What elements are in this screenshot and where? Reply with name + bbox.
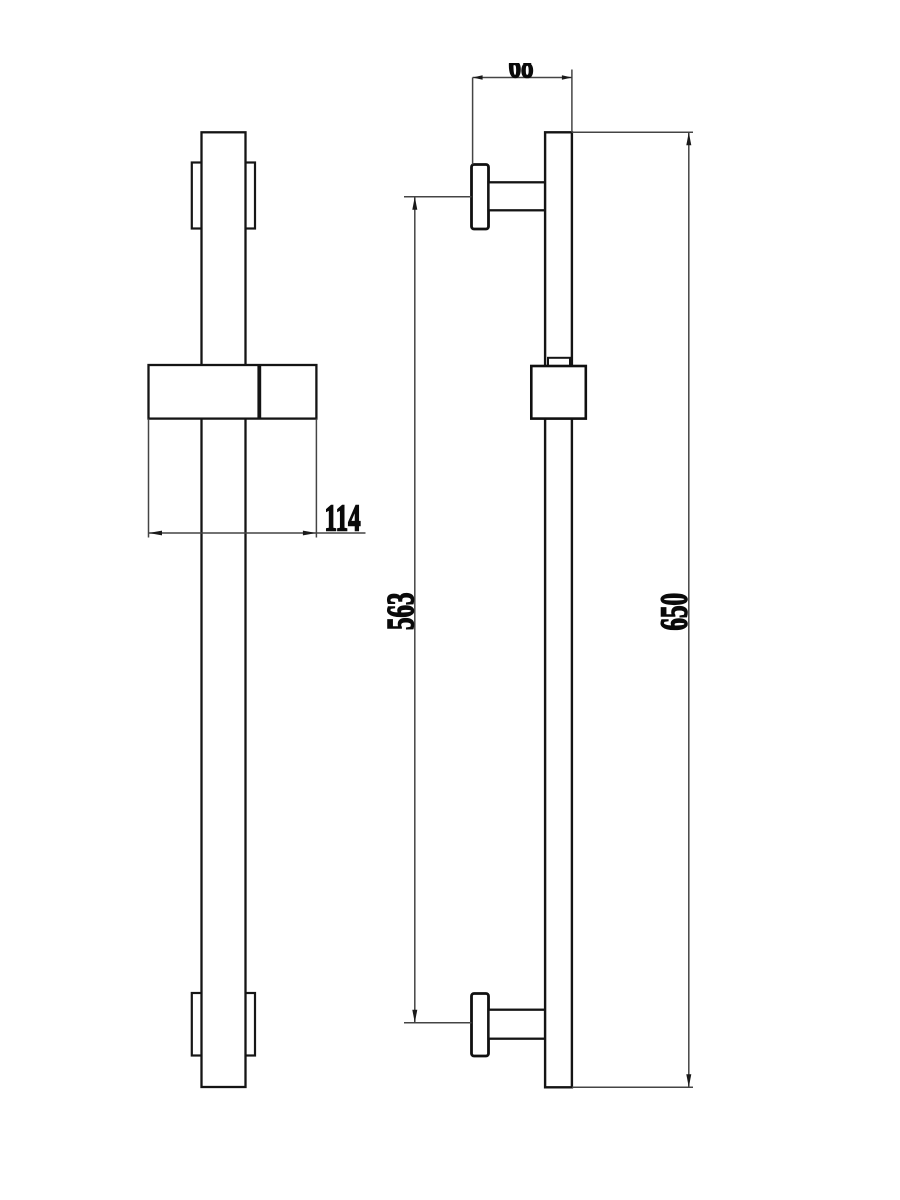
wall flange top (side view) <box>472 165 489 230</box>
slider button tab (side view) <box>548 358 570 367</box>
dimension text 563 (rotated) <box>379 593 421 630</box>
bottom wall bracket (front view) <box>192 993 255 1056</box>
extension line bottom of dim 650 <box>572 1086 693 1088</box>
extension line top of dim 650 <box>572 131 693 133</box>
arrowhead left of dim 68 <box>473 75 483 79</box>
extension line left of top dim 68 <box>472 78 474 165</box>
svg-text:563: 563 <box>379 593 421 630</box>
top wall bracket (front view) <box>192 163 255 229</box>
slide rail (front view) <box>202 132 246 1087</box>
bottom bracket arm (side view) <box>489 1010 546 1039</box>
arrowhead right of dim 68 <box>562 75 572 79</box>
dimension line 563 <box>414 197 416 1023</box>
dimension line 650 <box>688 132 690 1087</box>
dimension line 68 <box>473 77 572 79</box>
dimension line 114 <box>149 532 366 534</box>
extension line top of dim 563 <box>404 196 472 198</box>
slider body (side view) <box>531 366 586 419</box>
arrowhead right of dim 114 <box>303 531 317 536</box>
wall flange bottom (side view) <box>472 994 489 1057</box>
extension line left of dim 114 <box>148 419 150 538</box>
slide rail (side view) <box>545 132 572 1087</box>
dimension text 650 (rotated) <box>652 593 694 630</box>
arrowhead bottom of dim 563 <box>412 1010 417 1023</box>
svg-text:114: 114 <box>325 496 361 538</box>
holder divider line (front view) <box>257 366 261 418</box>
dimension text 114 <box>325 496 361 538</box>
arrowhead left of dim 114 <box>149 531 163 536</box>
top bracket arm (side view) <box>489 182 546 210</box>
arrowhead top of dim 563 <box>412 197 417 210</box>
svg-text:650: 650 <box>652 593 694 630</box>
extension line right of top dim 68 <box>571 70 573 133</box>
extension line right of dim 114 <box>315 419 317 538</box>
extension line bottom of dim 563 <box>404 1022 472 1024</box>
dimension text 68 (top cut off) <box>509 43 534 85</box>
arrowhead bottom of dim 650 <box>686 1074 691 1087</box>
shower holder body (front view) <box>149 365 317 419</box>
arrowhead top of dim 650 <box>686 132 691 145</box>
